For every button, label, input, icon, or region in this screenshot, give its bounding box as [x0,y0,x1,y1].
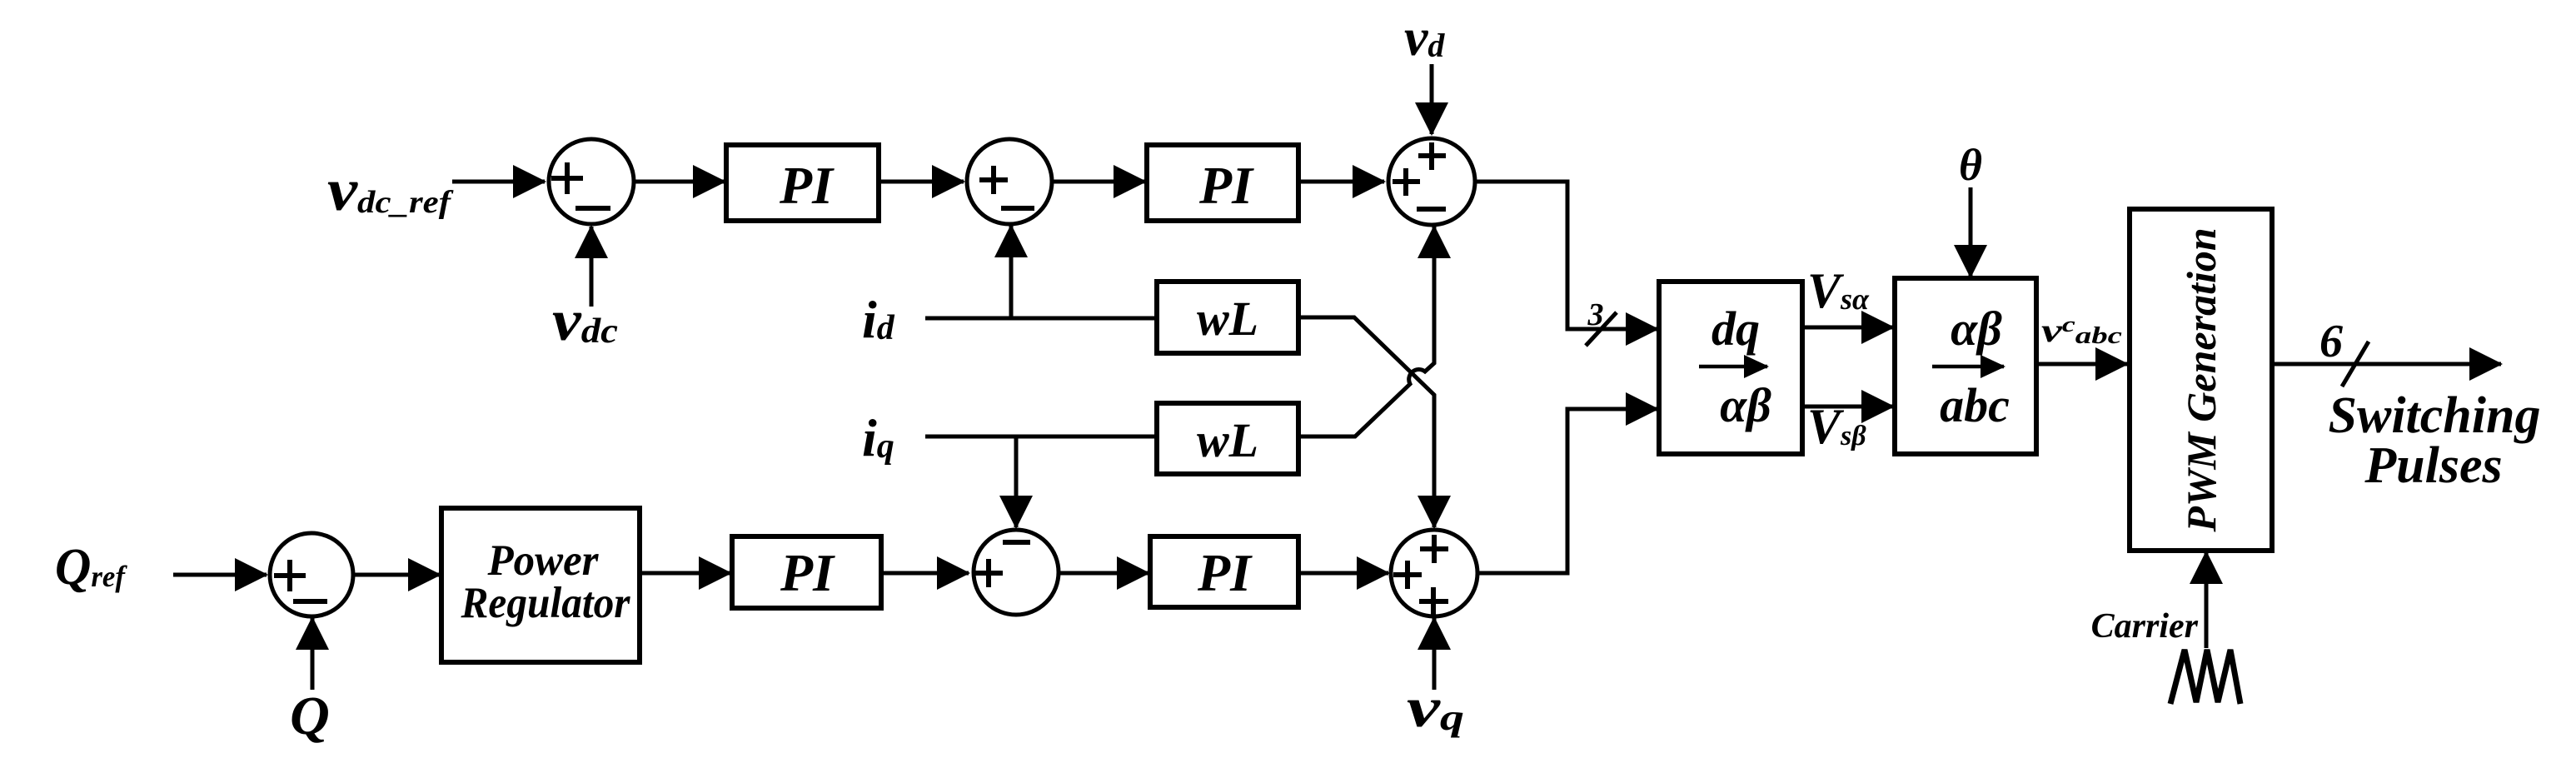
label v_q [1407,676,1464,739]
wire S5 output to dq block [1478,409,1657,573]
svg-text:PI: PI [780,543,835,602]
wire theta into ab block top [1969,187,1973,277]
label Switching Pulses [2329,387,2541,494]
svg-text:PI: PI [1198,156,1254,215]
svg-text:αβ: αβ [1951,302,2002,356]
wire S1 to PI1 [634,180,725,184]
block PI4 [1150,536,1298,607]
svg-text:3: 3 [1587,297,1604,332]
summing junction S3 [1388,138,1475,225]
svg-text:PI: PI [1197,543,1253,602]
wire Power Regulator to PI3 [640,571,730,576]
svg-text:6: 6 [2319,316,2343,367]
block Power Regulator [441,508,640,662]
svg-text:vdc: vdc [552,289,618,353]
wire PI4 to summer S5 [1298,571,1388,576]
svg-text:θ: θ [1959,140,1982,190]
svg-text:wL: wL [1197,292,1258,346]
wire PI3 to summer S4 [881,571,969,576]
block PI3 [732,536,881,608]
svg-text:vcabc: vcabc [2041,312,2123,349]
svg-text:Vsα: Vsα [1807,263,1870,318]
wire S4L to Power Regulator [353,573,440,577]
svg-text:Power: Power [487,536,600,585]
label i_d [862,290,895,349]
wire dq bottom output to ab block [1802,405,1893,409]
wire wL1 cross down into S5 top [1298,317,1434,527]
svg-text:Q: Q [290,686,330,746]
wire v_q into S5 bottom [1432,618,1437,690]
svg-text:Qref: Qref [55,539,127,596]
label theta [1959,140,1982,190]
label Vs_beta [1807,399,1866,454]
svg-text:Pulses: Pulses [2364,437,2502,494]
wire PI1 to summer S2 [879,180,964,184]
summing junction S2 [967,139,1052,224]
label Q_ref [55,539,127,596]
svg-text:wL: wL [1197,413,1258,467]
block wL2 [1157,403,1298,474]
label v_dc_ref [327,157,454,223]
label v_d [1404,7,1445,67]
label Q [290,686,330,746]
svg-text:vd: vd [1404,7,1445,67]
wire v_dc into S1 bottom [590,227,594,307]
block PI2 [1147,145,1298,221]
block PWM Generation [2130,209,2272,551]
label v_dc [552,289,618,353]
label vc_abc [2041,312,2123,349]
svg-text:iq: iq [862,408,894,467]
wire wL2 cross up with hop into S3 bottom [1298,227,1434,436]
summing junction S5 [1391,530,1477,616]
carrier triangle waveform [2170,650,2240,704]
block alpha-beta to abc [1895,278,2036,454]
wire Q_ref into summer S4L [173,573,267,577]
svg-text:dq: dq [1712,302,1760,356]
svg-text:Regulator: Regulator [461,579,631,627]
svg-text:Carrier: Carrier [2091,607,2199,646]
wire v_dc_ref into summer S1 [452,180,545,184]
wire i_d feed [925,317,1157,321]
summing junction S1 [549,139,634,224]
block wL1 [1157,282,1298,353]
summing junction S4L [270,533,353,616]
svg-text:abc: abc [1940,378,2010,432]
svg-text:PWM Generation: PWM Generation [2178,227,2225,532]
label Vs_alpha [1807,263,1870,318]
wire i_q branch down into S4 top [1014,436,1019,527]
wire PI2 to summer S3 [1298,180,1384,184]
svg-text:id: id [862,290,895,349]
wire S2 to PI2 [1052,180,1145,184]
svg-text:αβ: αβ [1720,378,1771,432]
label i_q [862,408,894,467]
bus slash 3 [1586,297,1617,346]
wire v_d into S3 top [1430,64,1434,134]
summing junction S4 [974,530,1059,615]
wire PWM output [2272,362,2501,367]
svg-text:Switching: Switching [2329,387,2541,444]
bus slash 6 [2319,316,2369,386]
wire ab block to PWM block [2036,362,2127,367]
wire carrier into PWM bottom [2205,552,2209,648]
wire S3 output to dq block with bus mark [1476,182,1657,329]
wire i_d branch up into S2 bottom [1009,226,1014,318]
block dq to alpha-beta [1659,282,1802,454]
wire Q into S4L bottom [311,618,315,690]
wire S4 to PI4 [1059,571,1148,576]
label Carrier [2091,607,2199,646]
wire dq top output to ab block [1802,326,1893,330]
block PI1 [726,145,879,221]
svg-text:PI: PI [779,156,835,215]
wire i_q feed [925,435,1157,439]
svg-text:vdc_ref: vdc_ref [327,157,454,223]
